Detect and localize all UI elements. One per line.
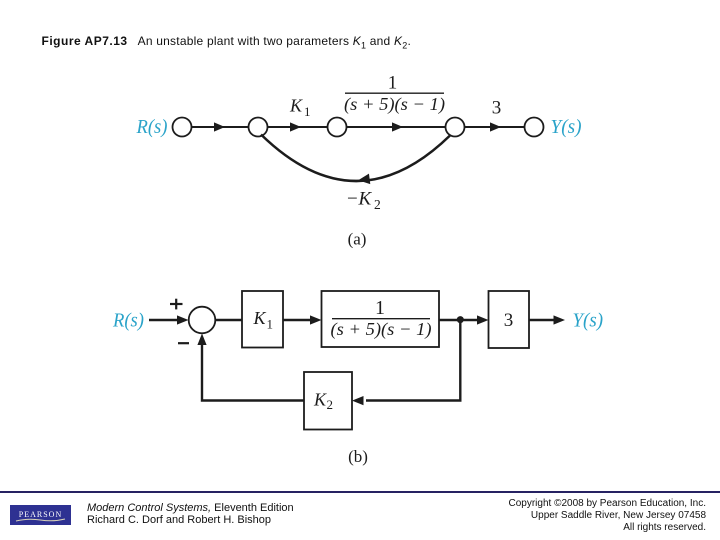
figure caption [42, 34, 412, 50]
node 4 [446, 118, 465, 137]
wire branch gain 3 [465, 126, 525, 128]
svg-text:(a): (a) [348, 230, 367, 249]
wire summer to K1 [215, 319, 242, 321]
footer copyright [509, 498, 707, 533]
block 3 [489, 291, 530, 348]
svg-text:1: 1 [388, 73, 398, 94]
arrowhead feedback arc [358, 174, 371, 186]
svg-text:−: − [347, 189, 358, 210]
svg-text:(b): (b) [348, 447, 368, 466]
arrowhead branch plant [392, 122, 403, 131]
svg-text:(s + 5)(s − 1): (s + 5)(s − 1) [331, 319, 432, 340]
wire output [529, 319, 556, 321]
wire branch plant [347, 126, 446, 128]
footer separator line [0, 491, 720, 493]
wire branch K1 [268, 126, 328, 128]
arrowhead output [554, 315, 566, 324]
node 5 output [525, 118, 544, 137]
svg-text:3: 3 [492, 98, 502, 119]
wire feedback to summer [202, 340, 304, 401]
summing junction [189, 307, 216, 334]
svg-text:K: K [253, 308, 267, 328]
svg-text:1: 1 [267, 317, 274, 332]
svg-text:R(s): R(s) [136, 116, 168, 138]
arrowhead branch 1 [214, 122, 225, 131]
svg-text:3: 3 [504, 310, 514, 331]
wire feedback down and left [366, 320, 460, 401]
svg-text:K: K [358, 189, 373, 210]
Pearson logo [10, 505, 71, 525]
arrowhead input [177, 315, 189, 324]
svg-text:R(s): R(s) [112, 310, 144, 332]
junction dot [457, 316, 464, 323]
arrowhead into plant [310, 315, 322, 324]
block plant [322, 291, 440, 347]
svg-text:2: 2 [327, 397, 334, 412]
wire input [149, 319, 180, 321]
arrowhead branch gain 3 [490, 122, 501, 131]
svg-text:Y(s): Y(s) [551, 116, 582, 138]
wire feedback arc [261, 135, 450, 182]
svg-text:K: K [289, 96, 303, 116]
wire branch 1 [192, 126, 249, 128]
block K1 [242, 291, 283, 348]
arrowhead into K2 [352, 396, 364, 405]
svg-text:1: 1 [304, 104, 311, 119]
svg-text:Y(s): Y(s) [573, 310, 604, 332]
node 3 [328, 118, 347, 137]
svg-text:(s + 5)(s − 1): (s + 5)(s − 1) [344, 94, 445, 115]
node 1 input [173, 118, 192, 137]
arrowhead branch K1 [290, 122, 301, 131]
svg-text:PEARSON: PEARSON [19, 510, 62, 519]
footer book title [87, 502, 294, 527]
node 2 [249, 118, 268, 137]
svg-text:K: K [313, 390, 327, 410]
svg-text:1: 1 [375, 297, 385, 319]
svg-text:2: 2 [374, 197, 381, 212]
label minus sign [178, 342, 189, 344]
block K2 [304, 372, 352, 430]
arrowhead into summer [197, 334, 206, 346]
wire K1 to plant [283, 319, 315, 321]
fraction bar [345, 92, 444, 94]
wire plant to block 3 [439, 319, 482, 321]
arrowhead into block 3 [477, 315, 489, 324]
plant fraction bar [332, 318, 430, 320]
label plus sign [170, 303, 183, 305]
